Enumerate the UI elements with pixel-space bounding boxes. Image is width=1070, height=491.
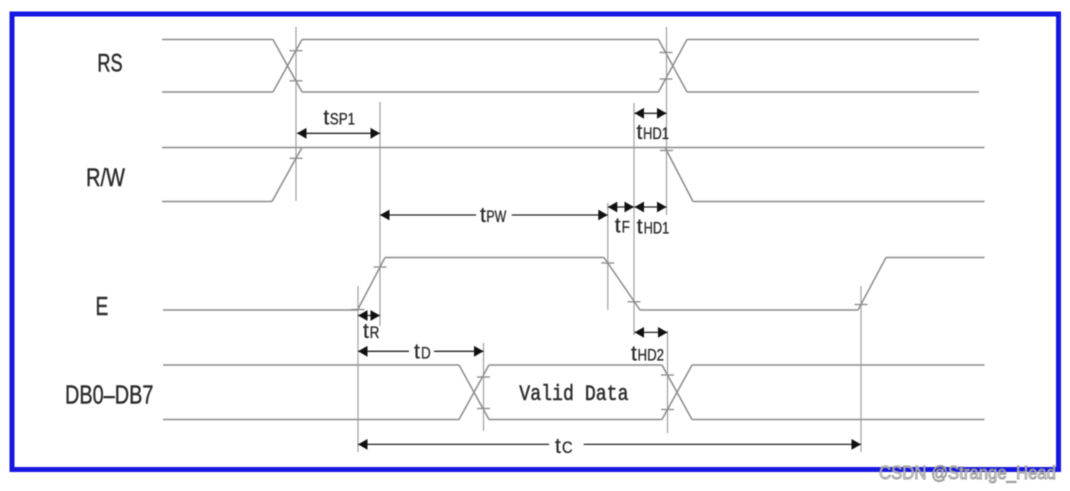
tick on E rise end [374,266,387,268]
E rising edge 1 [358,258,386,311]
marker line at RS change left [295,27,297,201]
tick on DB left crossover upper [477,376,490,378]
dimension arrow tHD1 lower [635,206,667,208]
wire RS bus top rail [162,39,979,41]
tick on E rise start [352,309,365,311]
marker line at E fall end [633,103,635,335]
marker line at E rise 2 [860,286,862,452]
label tc [555,435,573,458]
tick on R/W falling edge [660,150,673,152]
svg-text:D: D [421,343,431,362]
svg-text:t: t [555,435,561,458]
wire E high middle [385,257,604,259]
E rising edge 2 [858,258,886,311]
label tR [363,320,379,343]
svg-text:DB0–DB7: DB0–DB7 [65,380,153,410]
svg-text:t: t [637,121,643,144]
svg-text:R/W: R/W [86,164,125,192]
svg-text:t: t [637,216,643,239]
wire R/W low rail right [693,201,985,203]
E falling edge [604,258,640,311]
label tSP1 [323,107,355,130]
svg-text:t: t [363,320,369,343]
marker line at E rise end [379,102,381,326]
tick on DB right crossover upper [661,374,674,376]
label tF [615,215,630,238]
svg-text:Valid Data: Valid Data [519,382,628,407]
label tPW [480,204,506,227]
dimension arrow tR [358,315,380,317]
svg-text:t: t [480,204,486,227]
svg-text:PW: PW [486,207,506,226]
svg-text:HD2: HD2 [638,346,665,365]
wire E low middle [640,309,858,311]
R/W rising edge [272,148,302,202]
wire E high right [886,257,985,259]
tick on DB right crossover lower [661,409,674,411]
svg-text:R: R [370,323,380,342]
wire R/W high rail [162,147,985,149]
svg-text:t: t [631,343,637,366]
svg-text:t: t [615,215,621,238]
label tD [414,340,431,363]
marker line at RS change right upper [666,27,668,215]
marker line at E rise start [357,286,359,452]
label tHD1 upper [637,121,670,144]
svg-text:t: t [323,107,329,130]
label tHD2 [631,343,664,366]
marker line at E fall start [607,203,609,310]
wire E low left [163,309,358,311]
tick on E rise 2 [855,304,868,306]
R/W falling edge [665,148,693,202]
label tHD1 lower [637,216,670,239]
DB bus crossover left [459,365,489,420]
wire DB bus bottom rail [163,419,985,421]
dimension arrow tHD1 upper [635,112,667,114]
tick on R/W rising edge [290,157,303,159]
marker line at DB valid start [483,343,485,431]
marker line at DB change right lower [667,331,669,433]
tick on E fall start [601,262,614,264]
wire R/W low rail left [162,201,272,203]
dimension arrow tF [608,206,634,208]
DB bus crossover right [662,365,692,420]
svg-text:t: t [414,340,420,363]
tick on E fall end [628,301,641,303]
tick on RS left crossover lower [290,80,303,82]
tick on DB left crossover lower [477,408,490,410]
tick on RS right crossover upper [660,52,673,54]
svg-text:C: C [562,438,573,457]
svg-text:CSDN @Strange_Head: CSDN @Strange_Head [879,462,1056,484]
dimension arrow tD [358,350,484,352]
wire RS bus bottom rail [162,91,979,93]
dimension arrow tSP1 [297,132,380,134]
svg-text:HD1: HD1 [644,219,670,238]
wire DB bus top rail [163,364,985,366]
svg-text:E: E [96,291,109,321]
svg-text:SP1: SP1 [330,110,355,129]
dimension arrow tPW [380,214,608,216]
RS bus crossover right [659,40,688,93]
tick on RS right crossover lower [660,78,673,80]
dimension arrow tHD2 [635,331,668,333]
svg-text:F: F [622,218,630,237]
tick on RS left crossover upper [290,50,303,52]
svg-text:RS: RS [97,50,122,78]
svg-text:HD1: HD1 [643,124,669,143]
dimension arrow tc [358,443,861,445]
RS bus crossover left [273,40,302,93]
